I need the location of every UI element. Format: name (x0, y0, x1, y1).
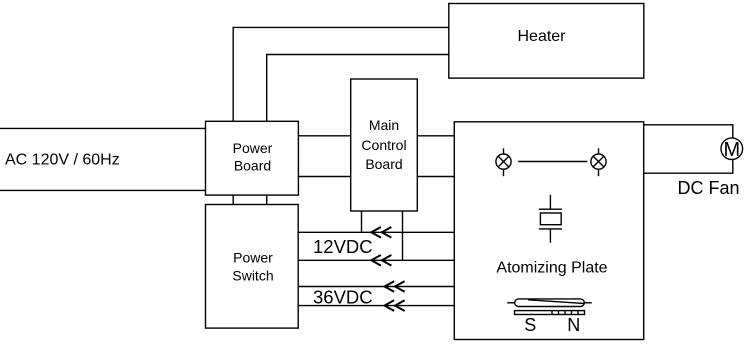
svg-text:N: N (567, 315, 580, 335)
wire PB to MCB lower (298, 176, 350, 178)
lamp 1 (496, 148, 511, 176)
svg-text:Power: Power (233, 140, 273, 156)
wire between lamps (518, 161, 587, 163)
svg-text:36VDC: 36VDC (313, 287, 373, 308)
label Main Control Board (361, 117, 406, 172)
svg-text:S: S (524, 315, 536, 335)
wire 12VDC upper (298, 231, 454, 233)
block Heater (449, 4, 644, 79)
wire 12VDC lower (298, 259, 454, 261)
arrow chevrons 36VDC upper (385, 281, 405, 292)
wire PB-PS link 2 (266, 195, 268, 204)
arrow chevrons 36VDC lower (385, 300, 405, 311)
wire fan bottom (644, 159, 733, 173)
wire fan top (644, 125, 733, 138)
svg-text:Control: Control (361, 137, 406, 153)
wire MCB drop 2 (402, 211, 404, 260)
crystal Y1 (539, 195, 562, 243)
wire heater feed 2 (267, 55, 449, 122)
arrow chevrons 12VDC upper (371, 227, 391, 238)
reed switch (507, 299, 592, 307)
svg-text:Main: Main (369, 117, 399, 133)
svg-text:M: M (723, 139, 740, 161)
svg-text:Heater: Heater (517, 28, 566, 45)
block Main Control Board (351, 79, 418, 211)
svg-text:Switch: Switch (232, 268, 273, 284)
wire MCB drop 1 (361, 211, 363, 232)
wire AC line top (0, 127, 206, 129)
lamp 2 (591, 148, 606, 176)
wire AC line bottom (0, 189, 206, 191)
wire heater feed 1 (233, 27, 449, 121)
motor M DC fan (721, 138, 743, 161)
block Atomizing Plate (454, 122, 643, 340)
block Power Board (206, 121, 299, 195)
wire PB-PS link 1 (232, 195, 234, 204)
svg-text:Board: Board (365, 156, 402, 172)
svg-text:Power: Power (233, 249, 273, 265)
wire MCB to plate lower (417, 176, 454, 178)
magnet bar (515, 311, 585, 315)
wire 36VDC lower (298, 305, 454, 307)
label Power Switch (232, 249, 273, 283)
svg-text:DC Fan: DC Fan (678, 178, 740, 198)
svg-text:12VDC: 12VDC (313, 236, 373, 257)
wire 36VDC upper (298, 286, 454, 288)
wire MCB to plate upper (417, 135, 454, 137)
label Power Board (233, 140, 273, 174)
arrow chevrons 12VDC lower (371, 255, 391, 266)
svg-text:Board: Board (234, 157, 271, 173)
svg-text:AC 120V / 60Hz: AC 120V / 60Hz (5, 152, 120, 169)
block Power Switch (206, 205, 299, 329)
wire PB to MCB upper (298, 135, 350, 137)
svg-text:Atomizing Plate: Atomizing Plate (496, 260, 607, 277)
